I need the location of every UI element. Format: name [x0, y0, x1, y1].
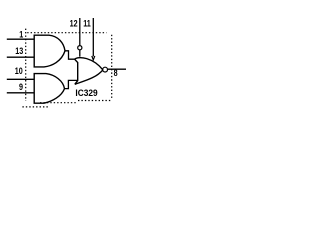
svg-text:10: 10: [15, 66, 23, 76]
wire pin1: [7, 38, 34, 40]
NOR gate U1c body: [75, 58, 103, 85]
wire pin10: [7, 78, 34, 80]
IC boundary dashed box: top row: [27, 32, 106, 34]
output wire pin8: [108, 68, 127, 70]
IC boundary: right column: [111, 35, 113, 100]
IC boundary: bottom row segment mid: [40, 102, 77, 104]
IC boundary: left column: [25, 29, 27, 101]
wire pin13: [7, 56, 34, 58]
pin11 line: [92, 18, 94, 56]
wire U1a output to NOR: [65, 51, 75, 59]
svg-text:9: 9: [19, 82, 23, 92]
pin12 inverter bubble: [78, 46, 82, 50]
svg-text:11: 11: [83, 18, 91, 28]
svg-text:8: 8: [114, 68, 118, 78]
svg-text:IC329: IC329: [75, 88, 97, 98]
pin12 stub into gate: [79, 50, 81, 57]
AND gate U1a: [34, 35, 65, 67]
AND gate U1b: [34, 74, 64, 104]
pin11 arrowhead: [92, 56, 95, 60]
IC boundary: bottom row segment left (lower): [22, 106, 48, 108]
output bubble: [103, 67, 108, 72]
wire U1b output to NOR: [65, 80, 78, 88]
wire pin9: [7, 92, 34, 94]
IC boundary: bottom row segment right: [78, 100, 112, 102]
svg-text:1: 1: [19, 30, 23, 40]
pin12 line: [79, 18, 81, 46]
svg-text:13: 13: [15, 46, 23, 56]
svg-text:12: 12: [70, 18, 78, 28]
